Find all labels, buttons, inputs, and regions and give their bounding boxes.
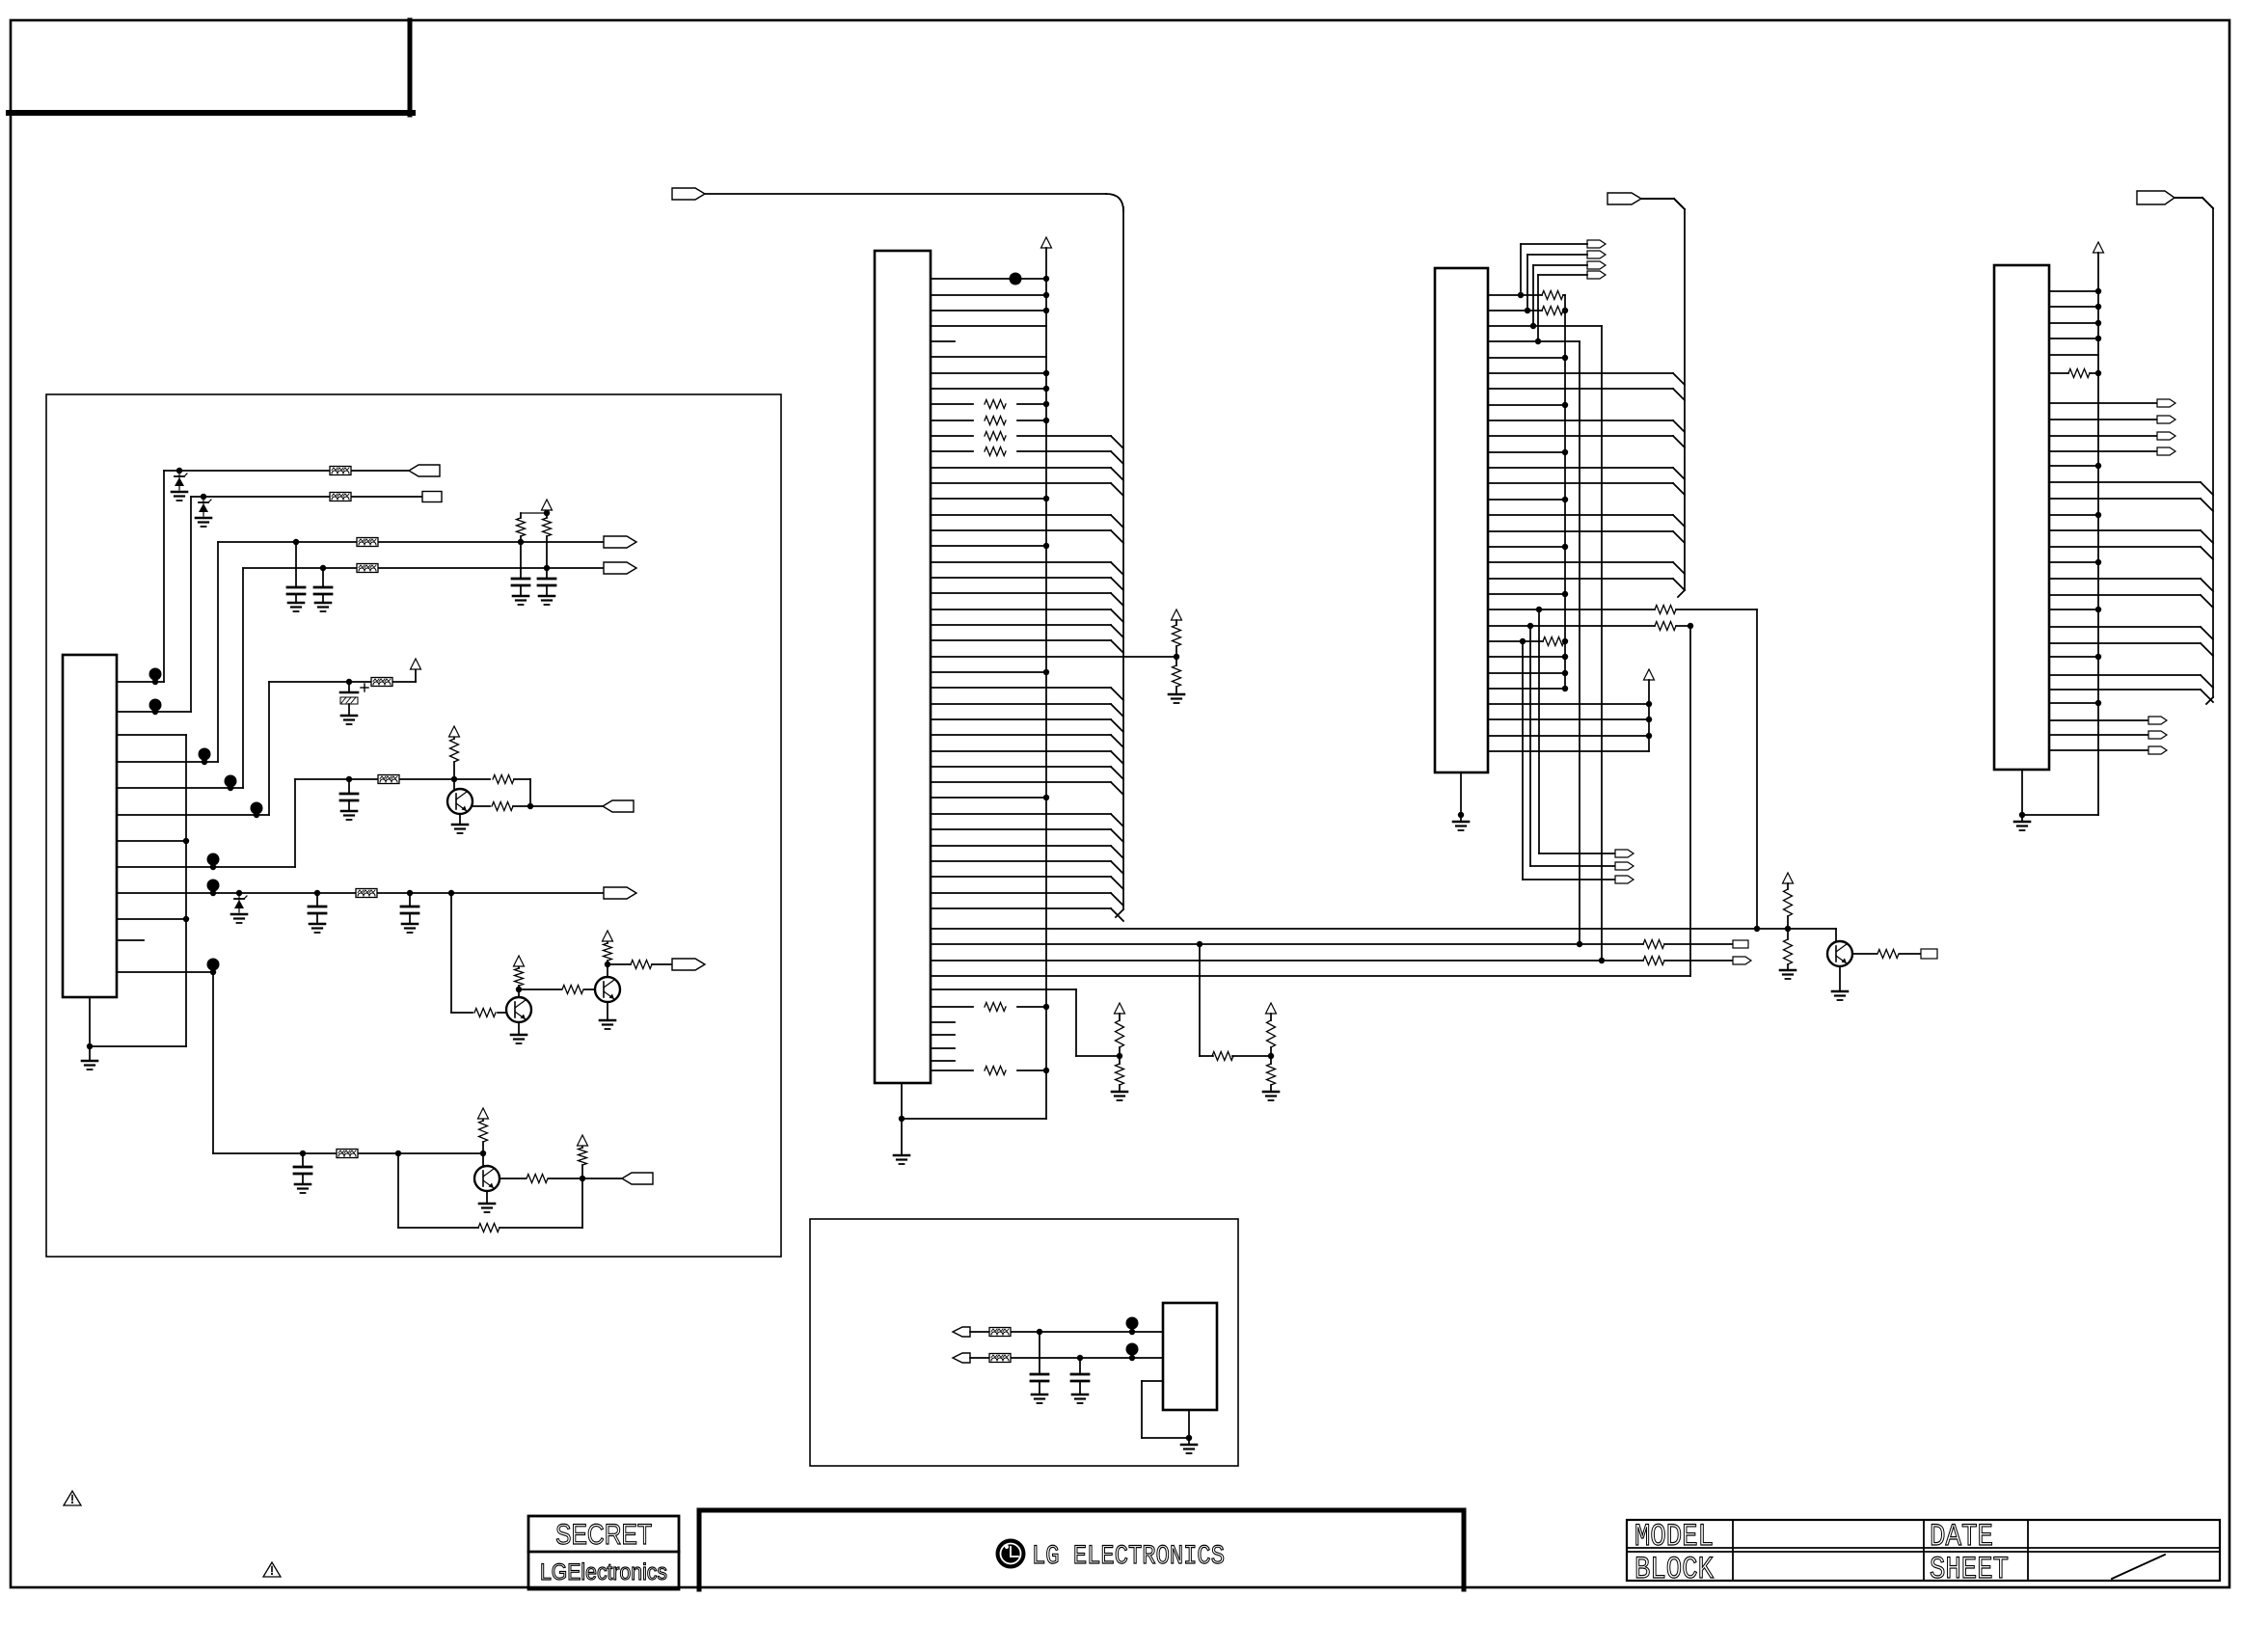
wire pin xyxy=(2049,419,2157,420)
bus xC U3 xyxy=(1601,326,1603,961)
wire pin xyxy=(2049,514,2098,516)
bus entry top xyxy=(1106,194,1123,211)
connector CN12 xyxy=(1607,193,1641,204)
wire pin xyxy=(931,294,1046,296)
node j3a xyxy=(293,539,299,545)
resistor xyxy=(985,447,1006,456)
ferrite FB10 xyxy=(989,1354,1011,1363)
wire bus entry xyxy=(2201,595,2213,608)
wire pin xyxy=(2049,338,2098,339)
node j10c xyxy=(480,1151,486,1156)
connector xyxy=(2157,447,2175,455)
bus xB U3 xyxy=(1579,341,1580,944)
wire L1b xyxy=(1757,928,1788,930)
resistor xyxy=(985,417,1006,425)
wire line1 xyxy=(164,470,330,472)
wire line4 xyxy=(243,567,357,569)
node j6b xyxy=(451,776,457,782)
wire line6 xyxy=(295,778,378,780)
wire bus entry xyxy=(1111,782,1123,795)
wire pin xyxy=(931,278,1046,280)
wire pin xyxy=(931,860,1111,862)
node j7b xyxy=(314,890,320,896)
resistor R5 xyxy=(473,805,490,807)
node xyxy=(1043,1068,1049,1073)
wire bus entry xyxy=(1673,579,1685,590)
wire bus entry xyxy=(1111,593,1123,606)
wire bus entry xyxy=(1111,829,1123,842)
wire pin xyxy=(931,892,1111,894)
power VCC xyxy=(2093,242,2104,253)
wire bus entry xyxy=(2201,499,2213,511)
wire bus entry xyxy=(2201,690,2213,702)
connector CN4 xyxy=(604,562,636,574)
wire U4 gnd xyxy=(2021,770,2023,822)
wire pin xyxy=(931,498,1046,500)
node xyxy=(2095,512,2101,518)
wire p6 xyxy=(117,814,269,816)
wire pin xyxy=(931,529,1111,531)
wire bus entry xyxy=(1111,861,1123,874)
connector CN1 xyxy=(409,465,440,476)
resistor xyxy=(1542,307,1563,315)
connector CN13 xyxy=(1615,850,1634,857)
resistor R21 xyxy=(1270,1056,1272,1064)
power VCC xyxy=(1115,1003,1125,1014)
wire bus entry xyxy=(1111,640,1123,653)
wire L1c xyxy=(1788,928,1836,930)
resistor R27 xyxy=(1787,883,1789,889)
wire pin xyxy=(2049,578,2201,580)
node xyxy=(1043,401,1049,407)
ferrite FB9 xyxy=(989,1328,1011,1337)
wire bus feed xyxy=(705,193,1106,195)
connector CN10 xyxy=(1733,940,1748,948)
wire p4 xyxy=(117,761,218,763)
wire pin xyxy=(931,420,973,421)
wire p21 drop xyxy=(1756,609,1758,929)
ferrite FB3 xyxy=(357,538,378,547)
wire xyxy=(970,1331,989,1333)
wire pin xyxy=(931,828,1111,830)
node blob N4 xyxy=(225,775,237,788)
wire xyxy=(1538,274,1587,276)
node xyxy=(1599,958,1605,963)
node blob xyxy=(1126,1343,1139,1356)
wire pin xyxy=(931,797,1046,799)
node xyxy=(1562,402,1568,408)
connector xyxy=(2157,416,2175,423)
connector CN15 xyxy=(1615,876,1634,883)
ground xyxy=(1169,693,1184,696)
resistor xyxy=(985,432,1006,441)
node xyxy=(1527,623,1533,629)
svg-text:DATE: DATE xyxy=(1930,1519,1993,1555)
wire L2b xyxy=(1664,943,1733,945)
capacitor C7 xyxy=(316,893,318,907)
wire pin xyxy=(2049,546,2201,548)
wire pin xyxy=(931,766,1111,768)
wire p9 line7 xyxy=(117,892,356,894)
wire bus feed xyxy=(1641,198,1674,200)
node xyxy=(1562,591,1568,597)
node blob N2 xyxy=(149,699,162,712)
wire p8 xyxy=(117,866,295,868)
wire p10 xyxy=(117,918,186,920)
ground xyxy=(518,1022,520,1035)
node xyxy=(1043,795,1049,800)
node blob N5 xyxy=(251,802,263,815)
power VCC xyxy=(1783,873,1794,883)
wire pin xyxy=(931,356,1046,358)
wire line3 xyxy=(218,541,357,543)
bus tail xyxy=(2206,697,2213,704)
zener D1 xyxy=(175,477,184,486)
wire p21 xyxy=(1488,609,1655,610)
wire pin xyxy=(1488,404,1565,406)
wire pin xyxy=(2049,642,2201,644)
resistor R2 xyxy=(543,518,552,536)
wire bus entry xyxy=(1111,451,1123,464)
node blob N9 xyxy=(1010,273,1022,285)
wire bus entry xyxy=(1673,483,1685,495)
capacitor C5 electrolytic xyxy=(348,682,350,692)
node j7a xyxy=(236,890,242,896)
power VCC xyxy=(603,931,613,941)
wire pin xyxy=(1488,593,1565,595)
resistor R16 xyxy=(1175,657,1177,665)
wire feedback xyxy=(397,1153,399,1228)
wire p23 xyxy=(1488,640,1543,642)
wire bus entry xyxy=(1673,531,1685,543)
ferrite FB2 xyxy=(330,493,351,501)
wire bus entry xyxy=(1111,609,1123,622)
wire L2 xyxy=(931,943,1643,945)
wire pin xyxy=(931,845,1111,847)
resistor R8 xyxy=(562,986,583,994)
ferrite FB1 xyxy=(330,467,351,475)
warning triangle 1 xyxy=(64,1491,81,1505)
connector xyxy=(2148,717,2167,724)
connector CN8 xyxy=(622,1173,653,1184)
LG ELECTRONICS box xyxy=(699,1510,1464,1589)
node xyxy=(1785,926,1791,932)
wire out1 xyxy=(530,805,603,807)
wire bus entry xyxy=(1111,751,1123,764)
resistor R3 xyxy=(453,762,455,779)
node xyxy=(1562,449,1568,455)
node xyxy=(1037,1329,1042,1335)
MODEL/BLOCK table xyxy=(1627,1520,2220,1581)
node xyxy=(1562,686,1568,691)
node j4a xyxy=(320,565,326,571)
wire pin xyxy=(1488,546,1565,548)
wire bus entry xyxy=(1673,562,1685,574)
wire pin xyxy=(1488,435,1673,437)
ground xyxy=(1112,1091,1127,1094)
node j1 xyxy=(176,468,182,474)
wire pin xyxy=(2049,594,2201,596)
wire loop xyxy=(1142,1380,1163,1382)
wire pin xyxy=(2049,435,2157,437)
bus vcc rail U4 xyxy=(2097,253,2099,815)
wire bus entry xyxy=(1111,893,1123,906)
node j11 xyxy=(1174,654,1179,660)
node xyxy=(2095,607,2101,612)
node j13 xyxy=(1117,1053,1122,1059)
node xyxy=(1043,1004,1049,1010)
node xyxy=(1688,623,1693,629)
wire pin xyxy=(1488,530,1673,532)
wire pin xyxy=(931,781,1111,783)
rail xyxy=(185,735,187,1046)
wire bf2 xyxy=(1530,865,1615,867)
ferrite FB4 xyxy=(357,564,378,573)
wire pin xyxy=(931,467,1111,469)
ground xyxy=(1839,966,1841,991)
power VCC xyxy=(449,726,460,737)
wire pin xyxy=(2049,609,2098,610)
wire pin xyxy=(2049,354,2098,356)
zener D3 xyxy=(234,900,244,908)
IC U5 xyxy=(1163,1303,1217,1410)
wire xyxy=(970,1357,989,1359)
node j9 xyxy=(607,964,608,977)
ground xyxy=(196,517,211,520)
ground xyxy=(172,491,187,494)
connector xyxy=(2157,432,2175,440)
wire bus entry xyxy=(1673,515,1685,527)
wire pin xyxy=(1488,656,1565,658)
node xyxy=(1562,497,1568,502)
node j6c xyxy=(527,803,533,809)
resistor R12 xyxy=(500,1178,526,1179)
wire line5 xyxy=(269,681,371,683)
node xyxy=(1043,496,1049,501)
connector xyxy=(2148,746,2167,754)
transistor Q2 xyxy=(506,997,531,1022)
wire pin xyxy=(1488,451,1565,453)
wire bus entry xyxy=(1111,483,1123,496)
wire pin xyxy=(931,403,973,405)
capacitor C8 xyxy=(409,893,411,907)
wire p11 stub xyxy=(117,939,144,941)
ground xyxy=(2014,821,2030,824)
node xyxy=(1043,543,1049,549)
wire pin xyxy=(2049,749,2148,751)
node j4b xyxy=(544,565,550,571)
wire p12 xyxy=(117,971,213,973)
wire p27 xyxy=(1488,703,1649,705)
wire p5 xyxy=(117,787,243,789)
wire pin xyxy=(2049,498,2201,500)
wire pin xyxy=(1488,372,1673,374)
wire bus feed xyxy=(2174,197,2202,199)
node xyxy=(1186,1435,1192,1441)
wire pin stub xyxy=(931,340,955,342)
node xyxy=(1562,544,1568,550)
wire pin xyxy=(2049,656,2098,658)
wire xyxy=(1529,626,1531,866)
resistor xyxy=(985,1067,1006,1075)
ground xyxy=(486,1191,488,1204)
node xyxy=(2095,288,2101,294)
wire pin xyxy=(2049,689,2201,691)
connector CN11 xyxy=(1733,957,1751,964)
node j10d xyxy=(580,1176,585,1181)
wire pin pullup net xyxy=(931,656,1176,658)
wire pin xyxy=(931,734,1111,736)
node blob xyxy=(1126,1317,1139,1330)
wire pin xyxy=(931,639,1111,641)
wire bus entry xyxy=(1111,735,1123,747)
node xyxy=(1562,355,1568,361)
wire to line8 xyxy=(212,972,214,1153)
wire pin xyxy=(1488,561,1673,563)
connector CN5 xyxy=(603,800,634,812)
resistor R25 xyxy=(1655,622,1676,631)
node xyxy=(1043,386,1049,392)
ground xyxy=(1453,821,1469,824)
svg-text:LG ELECTRONICS: LG ELECTRONICS xyxy=(1032,1542,1225,1572)
wire pin xyxy=(931,671,1046,673)
wire pin xyxy=(2049,481,2201,483)
wire bus entry xyxy=(1673,436,1685,447)
warning triangle 2 xyxy=(263,1562,281,1577)
node xyxy=(1043,418,1049,423)
wire q3 base xyxy=(519,988,561,990)
connector CN6 xyxy=(604,887,636,899)
resistor xyxy=(2068,369,2090,378)
wire pin xyxy=(931,325,1046,327)
transistor Q4 xyxy=(482,1153,484,1166)
bus vcc rail U2 xyxy=(1045,248,1047,1119)
IC U1 xyxy=(63,655,117,997)
resistor R26 xyxy=(1543,637,1564,646)
connector CNt2 xyxy=(1587,261,1606,269)
node xyxy=(1536,607,1542,612)
node xyxy=(1043,669,1049,675)
capacitor C1 xyxy=(295,542,297,587)
svg-text:MODEL: MODEL xyxy=(1634,1519,1714,1555)
wire bus entry xyxy=(2201,579,2213,591)
wire pin xyxy=(2049,702,2098,704)
node j4c xyxy=(544,510,550,516)
wire pin xyxy=(931,609,1111,610)
node xyxy=(1562,308,1568,313)
wire pin xyxy=(2049,450,2157,452)
node j10b xyxy=(395,1151,401,1156)
wire bus entry xyxy=(1111,515,1123,528)
connector CNt0 xyxy=(1587,240,1606,248)
node xyxy=(2095,463,2101,469)
wire bus entry xyxy=(1111,530,1123,543)
wire pin xyxy=(931,435,973,437)
wire bus entry xyxy=(2201,643,2213,656)
wire pin xyxy=(1488,420,1673,421)
wire p3 xyxy=(117,734,186,736)
IC U2 xyxy=(875,251,931,1083)
wire bus entry xyxy=(1673,468,1685,479)
wire bus entry xyxy=(1111,468,1123,480)
wire pin xyxy=(1488,388,1673,390)
wire pin xyxy=(931,561,1111,563)
left circuit enclosure box xyxy=(46,394,781,1257)
wire pin xyxy=(931,813,1111,815)
wire pin xyxy=(931,372,1046,374)
resistor R24 xyxy=(1655,606,1676,614)
node blob N6 xyxy=(207,853,220,866)
bus tail xyxy=(1116,909,1123,917)
power VCC xyxy=(542,500,553,510)
wire U2 gnd xyxy=(901,1083,903,1155)
wire pin xyxy=(2049,290,2098,292)
ground xyxy=(1188,1438,1190,1445)
wire q2 base xyxy=(450,893,452,1013)
svg-text:BLOCK: BLOCK xyxy=(1634,1552,1715,1587)
node xyxy=(1043,292,1049,298)
connector CNt1 xyxy=(1587,251,1606,258)
wire pin stub xyxy=(931,1034,955,1036)
capacitor C3 xyxy=(520,542,522,579)
wire pin xyxy=(931,703,1111,705)
resistor R13 xyxy=(579,1148,587,1165)
wire line2 xyxy=(191,496,330,498)
wire bus entry xyxy=(1673,373,1685,385)
wire bus entry xyxy=(1111,704,1123,717)
wire xyxy=(1521,243,1587,245)
wire pin xyxy=(931,1070,973,1071)
power VCC xyxy=(411,659,421,669)
node xyxy=(2095,700,2101,706)
wire pin xyxy=(1488,294,1542,296)
node xyxy=(2095,336,2101,341)
transistor Q3 xyxy=(595,977,620,1002)
power VCC xyxy=(578,1135,588,1146)
wire pin xyxy=(1488,514,1673,516)
connector CN9 xyxy=(672,188,705,200)
capacitor C9 xyxy=(302,1153,304,1167)
connector CN19 xyxy=(953,1353,970,1363)
connector CN7 xyxy=(672,959,705,970)
power VCC xyxy=(514,956,525,966)
wire pin xyxy=(2049,465,2098,467)
power VCC xyxy=(1266,1003,1277,1014)
wire pin xyxy=(1488,310,1542,311)
resistor R1 xyxy=(517,518,526,536)
node xyxy=(1043,308,1049,313)
transistor Q5 xyxy=(1827,941,1852,966)
wire p29 xyxy=(1488,735,1649,737)
capacitor C4 xyxy=(546,568,548,579)
resistor R22 xyxy=(1119,1014,1121,1020)
power VCC rail xyxy=(1644,669,1655,680)
wire bf1 xyxy=(1539,853,1615,854)
node xyxy=(1197,941,1202,947)
wire p22 xyxy=(1488,625,1655,627)
wire out2 xyxy=(582,1178,622,1179)
wire p2 xyxy=(117,711,191,713)
connector CNt3 xyxy=(1587,271,1606,279)
wire U3 gnd xyxy=(1460,772,1462,822)
resistor R14 xyxy=(478,1224,500,1232)
bus tail xyxy=(1678,590,1685,597)
bus xA U3 xyxy=(1564,295,1566,689)
transistor Q1 xyxy=(453,779,455,789)
resistor R20 xyxy=(1270,1014,1272,1020)
ground xyxy=(607,1002,608,1020)
wire L4 xyxy=(931,975,1690,977)
